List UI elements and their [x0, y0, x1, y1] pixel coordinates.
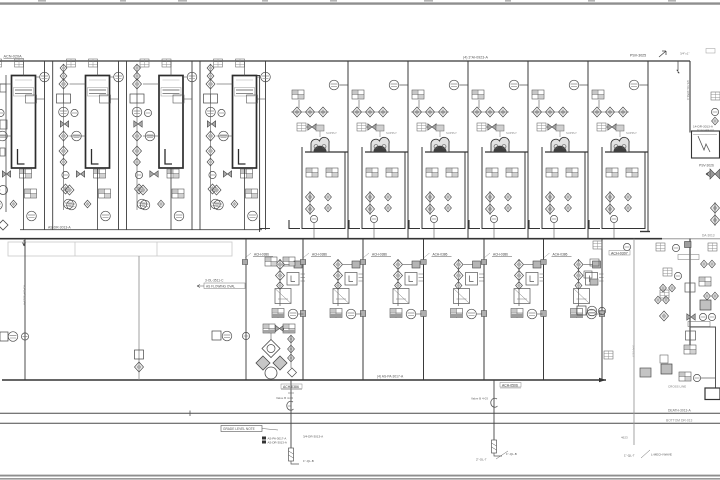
- svg-text:3/4"x1": 3/4"x1": [680, 52, 689, 56]
- node solid markers: [262, 437, 287, 445]
- instrument box on line: [685, 283, 695, 292]
- svg-text:ACH-0307: ACH-0307: [611, 251, 628, 255]
- svg-text:L-MECH WAVE: L-MECH WAVE: [651, 453, 672, 457]
- wire right cluster line: [689, 239, 691, 345]
- blower bay 2: [349, 80, 408, 238]
- separator drum box: [705, 388, 720, 400]
- top border line: [0, 2, 720, 4]
- valve right edge diamonds: [711, 202, 720, 226]
- wire row2 bay border 1: [302, 239, 304, 380]
- wire bay border 6 foot: [640, 231, 650, 233]
- instrument box below junction: [686, 331, 696, 340]
- wire bay border 6: [647, 61, 649, 232]
- valve edge diamond low: [0, 220, 8, 230]
- valve C clamp 494: [491, 398, 498, 407]
- svg-text:BOTTOM DR-013: BOTTOM DR-013: [666, 418, 692, 422]
- svg-text:GRADE LEVEL NOTE: GRADE LEVEL NOTE: [223, 427, 255, 431]
- wire long pipe line A: [0, 412, 720, 414]
- svg-text:2"-OL-7: 2"-OL-7: [476, 458, 487, 462]
- svg-text:ACN-020A: ACN-020A: [4, 55, 23, 59]
- node row2 bus arrow: [599, 378, 606, 382]
- valve relief arrow: [706, 172, 718, 177]
- svg-text:1"-QL-7: 1"-QL-7: [624, 454, 635, 458]
- svg-text:3-OL-3511-C: 3-OL-3511-C: [205, 279, 224, 283]
- blower bay 5: [529, 80, 588, 238]
- instrument small on 602: [584, 259, 599, 285]
- valve group row2 bay5: [481, 252, 544, 319]
- node line A tick: [189, 411, 191, 417]
- node vent stub: [677, 61, 680, 73]
- valve edge diamond 2: [712, 117, 719, 125]
- valve C clamp 291: [287, 401, 294, 410]
- wire row2 left line: [24, 239, 26, 380]
- instrument dark box low: [661, 364, 672, 374]
- wire bay border 5: [587, 61, 589, 238]
- wire drop at 291: [290, 380, 292, 448]
- wire long pipe line B: [0, 422, 720, 424]
- valve left diamonds row1: [660, 284, 667, 292]
- valve diamonds right top: [701, 260, 708, 268]
- flare seal pot box: [692, 131, 720, 158]
- svg-text:AS-DR-3013-A: AS-DR-3013-A: [23, 285, 27, 305]
- instrument circle pair: [699, 313, 706, 320]
- reactor train 3: [130, 59, 197, 230]
- node tick marks 291: [288, 393, 294, 406]
- valve cluster row2 bay1 bottom: [256, 324, 297, 380]
- blower bay 3: [409, 80, 468, 238]
- wire bay border 3: [467, 61, 469, 238]
- instrument edge table: [711, 92, 720, 100]
- valve PSV arrow: [659, 51, 666, 57]
- svg-text:3/4-DR-3013-A: 3/4-DR-3013-A: [303, 435, 323, 439]
- node corner tag: [706, 49, 715, 54]
- valve edge bowtie: [710, 169, 720, 179]
- instrument left circle: [8, 332, 18, 342]
- svg-text:Valve B 4-03: Valve B 4-03: [471, 397, 488, 401]
- svg-text:PSV-3025: PSV-3025: [630, 54, 646, 58]
- instrument edge box C: [0, 148, 5, 156]
- valve left diamonds row2: [655, 296, 662, 304]
- wire header right drop: [689, 61, 691, 133]
- wire train4 right elbow: [250, 76, 260, 233]
- wire gray vertical 634: [633, 239, 635, 445]
- wire train border 4: [199, 61, 201, 230]
- svg-text:(4) 3"AI-0923-A: (4) 3"AI-0923-A: [463, 56, 488, 60]
- svg-text:3/4-VG-3052-A: 3/4-VG-3052-A: [686, 80, 690, 100]
- svg-text:4623: 4623: [621, 436, 628, 440]
- drain leg 291: [289, 448, 300, 464]
- node ACN-020A label: [4, 55, 25, 59]
- svg-text:AS-DR-3013-A: AS-DR-3013-A: [268, 441, 287, 445]
- wire train border 2: [52, 61, 54, 230]
- svg-text:1"-QL-B: 1"-QL-B: [303, 459, 314, 463]
- wire bay border 4: [527, 61, 529, 238]
- wire row2 bay border 2: [362, 239, 364, 380]
- instrument circle on line: [21, 333, 28, 340]
- instrument small box left: [660, 290, 669, 298]
- wire row2 bottom bus: [2, 379, 606, 381]
- blower bay 1: [289, 80, 348, 238]
- wire middle bus light extension: [662, 238, 720, 240]
- bottom border line 1: [0, 475, 720, 477]
- node mid bus down arrow: [23, 240, 26, 246]
- wire row2 bay border 5: [543, 239, 545, 380]
- instrument mid box: [135, 350, 144, 359]
- node 2-OL-7 label: [476, 451, 508, 462]
- instrument edge circle: [0, 186, 8, 195]
- wire bay border 1: [347, 61, 349, 238]
- reactor train 1: [0, 59, 49, 230]
- instrument top tables: [593, 241, 717, 252]
- wire left block lower header: [20, 229, 262, 231]
- instrument dark box far left: [640, 368, 651, 377]
- svg-text:DEATH-3013-A: DEATH-3013-A: [668, 409, 691, 413]
- node grade note box: [221, 426, 278, 432]
- wire main middle bus: [0, 238, 662, 240]
- reactor train 2: [57, 59, 124, 230]
- instrument gray box: [700, 300, 711, 310]
- svg-text:PSV-3026: PSV-3026: [699, 164, 714, 168]
- wire train border 3: [126, 61, 128, 230]
- wire row2 bay border 3: [423, 239, 425, 380]
- valve group row2 bay6: [541, 252, 604, 319]
- svg-text:Valve B 4-03: Valve B 4-03: [276, 396, 293, 400]
- wire top suction header: [0, 60, 690, 62]
- node ACH label 291: [281, 384, 302, 390]
- instrument edge box B: [0, 120, 7, 129]
- svg-text:1"-QL-B: 1"-QL-B: [506, 452, 517, 456]
- instrument pair on 602: [577, 306, 606, 316]
- instrument table right: [699, 277, 711, 286]
- svg-text:DA-3013: DA-3013: [702, 234, 715, 238]
- instrument left small box: [660, 355, 668, 363]
- node SO FO label: [688, 322, 710, 327]
- wire row2 line x246: [245, 239, 247, 380]
- blower bay 4: [469, 80, 528, 238]
- drain leg 494: [492, 440, 503, 456]
- instrument box small 604: [604, 351, 613, 359]
- valve group row2 bay3: [360, 252, 423, 319]
- instrument edge box A: [0, 84, 6, 92]
- wire right elbow to drum: [690, 327, 716, 388]
- instrument table low: [684, 345, 696, 354]
- svg-text:3-AI-0317: 3-AI-0317: [632, 345, 636, 358]
- svg-text:AS-DR-3013-A: AS-DR-3013-A: [48, 226, 71, 230]
- svg-text:ACH-0386: ACH-0386: [283, 385, 299, 389]
- node border squares: [300, 311, 604, 317]
- valve edge diamond pair: [711, 108, 718, 115]
- wire train1 edge spine: [5, 75, 7, 212]
- valve mid diamond: [135, 362, 144, 372]
- valve group row2 bay2: [300, 252, 363, 319]
- instrument tables bay1 top: [265, 257, 295, 266]
- node 1-QL-7 label: [624, 450, 672, 458]
- valve diamond pair right: [704, 292, 711, 300]
- valve group row2 bay1: [242, 252, 305, 319]
- wire bay border 2: [407, 61, 409, 238]
- wire row2 bay border 4: [483, 239, 485, 380]
- node cluster label: [678, 255, 699, 260]
- svg-text:(4) AS-PA-3017-A: (4) AS-PA-3017-A: [377, 375, 404, 379]
- instrument box circle left: [663, 268, 672, 276]
- wire row2 mid line: [138, 256, 140, 380]
- svg-text:CROSS LINE: CROSS LINE: [668, 385, 686, 389]
- bottom border line 2: [0, 478, 720, 480]
- node ACH-0307 label: [609, 251, 630, 256]
- valve left diamond big: [660, 311, 669, 321]
- instrument left box: [0, 332, 8, 341]
- instrument table circle pair: [679, 372, 691, 381]
- instrument pair near x246: [212, 331, 250, 341]
- valve group row2 bay4: [421, 252, 484, 319]
- valve bowtie on line: [687, 314, 695, 320]
- wire bay0 hook: [260, 220, 270, 229]
- blower bay 6: [589, 80, 648, 238]
- reactor train 4: [204, 59, 271, 230]
- wire drop at 494: [493, 380, 495, 440]
- node flowing oval label: [197, 283, 245, 289]
- wire row2 bay border 6: [601, 239, 603, 380]
- node top zone ticks: [38, 0, 676, 2]
- svg-text:ACH-0506: ACH-0506: [502, 383, 518, 387]
- node faint note table: [8, 242, 232, 256]
- svg-text:AS FLOWING OVAL: AS FLOWING OVAL: [206, 285, 235, 289]
- instrument dark sq top: [685, 242, 692, 248]
- node ACH label 494: [500, 383, 521, 389]
